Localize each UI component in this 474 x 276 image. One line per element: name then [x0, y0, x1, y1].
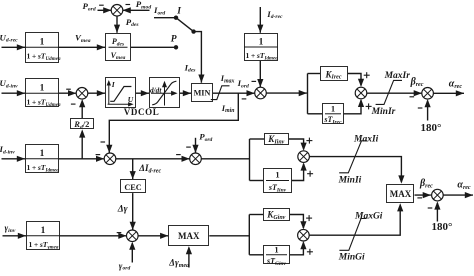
svg-text:1: 1 — [40, 84, 45, 94]
svg-text:MinIr: MinIr — [371, 107, 396, 117]
plus sign at bottom input of junction J9 — [307, 251, 313, 253]
wire J8 to MAX block — [138, 235, 168, 237]
plus sign at bottom input of junction J7 — [307, 173, 313, 175]
minus sign at bottom input of junction J11 — [428, 207, 433, 209]
switch arm from node I — [176, 18, 194, 32]
summing junction J8 (gamma compare) — [127, 230, 139, 242]
svg-text:180°: 180° — [432, 221, 453, 233]
block B11 gain R_d/2 — [71, 119, 94, 129]
plus sign at bottom input of junction J4 — [366, 105, 372, 107]
wire I_ord to node I — [154, 17, 176, 19]
node I terminal dot — [174, 16, 178, 20]
summing junction J11 (180 - beta inv) — [432, 189, 444, 201]
wire B1 to B2 — [59, 46, 105, 48]
wire B16 to junction J8 — [60, 235, 127, 237]
wire 180deg to junction J11 — [436, 203, 438, 222]
block B15 MAX (gamma/current) — [169, 226, 209, 246]
superscript minus at I_ord — [252, 80, 257, 82]
limiter L3 MaxIi/MinIi — [339, 141, 367, 173]
svg-text:1: 1 — [259, 37, 264, 47]
wire d/dt to MIN block — [180, 92, 191, 94]
wire gamma_inv input — [3, 235, 27, 237]
plus sign at top input of junction J9 — [306, 217, 312, 219]
wire branch to integrator 1/sT_Iinv — [250, 180, 264, 182]
wire J2 to VDCOL block — [88, 92, 105, 94]
wire B7 to junction J3 — [259, 61, 261, 87]
summing junction J7 (PI sum inverter I) — [298, 151, 310, 163]
svg-text:MAX: MAX — [178, 231, 200, 241]
wire P_mod to junction J1 — [123, 9, 150, 11]
limiter L4 MaxGi/MinGi — [339, 219, 366, 251]
summing junction J1 (Pord - Pmod) — [111, 5, 123, 17]
minus sign at bottom input of junction J10 — [418, 107, 423, 109]
block B6 MIN — [192, 84, 213, 102]
wire PI branch vertical (rectifier) — [307, 74, 309, 114]
wire K_Ginv to junction J9 — [290, 215, 303, 229]
svg-text:1: 1 — [41, 226, 46, 236]
wire VDCOL to d/dt block — [136, 92, 149, 94]
limiter L2 MaxIr/MinIr — [376, 80, 402, 104]
minus sign at left input of junction J8 — [117, 232, 122, 234]
wire branch to integrator 1/sT_Ginv — [249, 254, 263, 256]
svg-text:MIN: MIN — [194, 89, 211, 98]
switch pivot dot — [191, 29, 195, 33]
summing junction J5 (Idinv compare) — [104, 153, 116, 165]
output wire alpha_rec (bottom) — [443, 194, 473, 196]
svg-text:Δγ: Δγ — [117, 204, 128, 214]
wire U_d-inv input — [2, 92, 26, 94]
wire K_Irec to junction J4 — [348, 74, 361, 86]
minus sign below wire at junction J3 — [242, 98, 247, 100]
wire PI branch vertical (gamma) — [248, 215, 250, 255]
summing junction J4 (PI sum rectifier) — [355, 87, 367, 99]
minus sign below wire at junction J10 — [410, 96, 415, 98]
block B10 measurement lag 1/(1+sTIdmea) — [26, 145, 59, 173]
wire B3 to junction J2 — [59, 92, 76, 94]
wire branch to K_Irec — [308, 73, 321, 75]
minus sign at left input of junction J5 — [96, 154, 101, 156]
svg-text:1: 1 — [40, 149, 45, 159]
block B8 gain K_Irec — [321, 67, 348, 81]
wire CEC to junction J8 — [132, 193, 134, 230]
wire B2 to node P — [131, 46, 176, 48]
minus sign at P_mod input of junction J1 — [126, 4, 131, 6]
wire integrator to junction J4 — [344, 100, 361, 114]
wire branch down to CEC — [132, 159, 134, 180]
minus sign at left input of junction J2 — [66, 88, 71, 90]
summing junction J6 (minus Pord) — [190, 153, 202, 165]
minus sign at P_ord input of junction J1 — [99, 4, 104, 6]
output wire alpha_rec (top) — [433, 92, 464, 94]
summing junction J9 (PI sum gamma) — [298, 229, 310, 241]
svg-text:MinGi: MinGi — [338, 253, 365, 263]
wire integrator to junction J9 — [290, 243, 303, 255]
minus sign below wire at junction J11 — [417, 197, 422, 199]
wire switch to MIN block — [194, 32, 202, 83]
summing junction J2 (Udinv compensation) — [76, 88, 88, 100]
wire branch to K_Iinv — [250, 138, 265, 140]
wire 180deg to junction J10 — [427, 101, 429, 121]
block B4 VDCOL characteristic — [106, 78, 136, 108]
wire branch to integrator 1/sT_Irec — [308, 113, 323, 115]
limiter L1 Imax/Imin — [211, 86, 230, 100]
wire MAX to junction J11 — [415, 194, 431, 196]
wire U_d-rec input — [2, 46, 26, 48]
wire PI branch vertical (inverter I) — [249, 139, 251, 181]
wire gamma_ord to junction J8 — [131, 243, 133, 262]
svg-text:MAX: MAX — [390, 189, 412, 199]
svg-text:U: U — [128, 95, 134, 104]
wire J7 through limiter to MAX block — [309, 157, 401, 183]
wire J9 through limiter to MAX block — [309, 205, 400, 236]
block B2 divider Pdes/Vmea — [106, 34, 131, 61]
wire R_d/2 to junction J2 — [81, 101, 83, 118]
svg-text:VDCOL: VDCOL — [124, 107, 160, 117]
summing junction J3 (Iord - Idrec) — [255, 87, 267, 99]
wire integrator to junction J7 — [292, 164, 304, 181]
wire branch to K_Ginv — [249, 214, 263, 216]
block B13 gain K_Iinv — [265, 134, 289, 145]
block B5 rate limiter d/dt — [150, 78, 180, 108]
block B19 MAX (selector) — [387, 185, 414, 203]
svg-text:MinIi: MinIi — [338, 176, 362, 186]
summing junction J10 (180 - beta rec) — [422, 88, 434, 100]
block B3 measurement lag 1/(1+sTUdmea) — [26, 79, 59, 107]
wire B10 to junction J5 — [59, 158, 104, 160]
svg-text:180°: 180° — [421, 122, 442, 134]
svg-text:1: 1 — [274, 244, 278, 254]
svg-text:1: 1 — [40, 38, 45, 48]
svg-text:I: I — [176, 6, 181, 16]
wire branch up to R_d/2 — [81, 131, 83, 159]
svg-text:P: P — [171, 35, 177, 45]
block B16 measurement lag 1/(1+sTgmea) — [27, 222, 60, 250]
block B18 integrator 1/sT_Ginv — [264, 246, 290, 264]
minus sign at top input of junction J5 — [101, 141, 106, 143]
wire J5 to junction J6 — [116, 158, 190, 160]
wire J6 to PI branch point (inverter I) — [201, 158, 249, 160]
plus sign at top input of junction J4 — [364, 74, 370, 76]
svg-text:1: 1 — [331, 103, 335, 113]
wire MAX to PI branch point (gamma) — [209, 235, 249, 237]
wire J1 to divider block — [116, 16, 118, 33]
wire I_d-rec input — [259, 7, 261, 33]
block B9 integrator 1/sT_Irec — [323, 104, 344, 124]
wire P_ord to junction J1 — [98, 9, 112, 11]
node P terminal dot — [174, 45, 178, 49]
wire P_ord to junction J6 — [195, 138, 197, 153]
wire K_Iinv to junction J7 — [289, 139, 304, 149]
block B14 integrator 1/sT_Iinv — [264, 169, 292, 193]
wire delta-gamma_mea to MAX block — [188, 248, 190, 268]
wire J3 to PI branch point — [266, 92, 307, 94]
feedback wire I_ord to junction J5 — [109, 93, 238, 153]
svg-text:d/dt: d/dt — [150, 85, 162, 94]
block B7 measurement lag 1/(1+sTIdmea) — [245, 34, 278, 61]
plus sign at top input of junction J7 — [306, 140, 312, 142]
block B12 CEC — [121, 180, 146, 193]
wire MIN through limiter to junction J3 — [213, 92, 255, 94]
svg-text:MaxIi: MaxIi — [353, 134, 379, 144]
minus sign at left input of junction J6 — [176, 154, 181, 156]
wire I_d-inv input — [2, 158, 26, 160]
block B1 measurement lag 1/(1+sTUdmea) — [26, 33, 59, 63]
svg-text:MaxIr: MaxIr — [384, 71, 411, 81]
minus sign at top input of junction J6 — [186, 146, 191, 148]
block B17 gain K_Ginv — [264, 209, 290, 221]
svg-text:MaxGi: MaxGi — [354, 211, 383, 221]
wire J4 through limiter to junction J10 — [367, 92, 422, 94]
svg-text:1: 1 — [275, 170, 279, 180]
svg-text:CEC: CEC — [124, 183, 141, 192]
minus sign at bottom input of junction J2 — [71, 103, 76, 105]
